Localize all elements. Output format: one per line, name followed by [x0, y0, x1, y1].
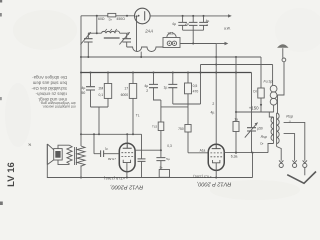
wire bottom rail: [47, 165, 252, 178]
svg-text:Schaltbild des Ge-: Schaltbild des Ge-: [31, 86, 67, 91]
capacitor C4 4µ50: [86, 71, 95, 107]
resistor R8: [258, 88, 264, 98]
node lamp left: [136, 15, 138, 17]
wire drop cap bus to heater exit: [192, 30, 194, 43]
capacitor C1c: [199, 16, 208, 30]
svg-text:+150: +150: [249, 105, 259, 110]
wire column link: [161, 106, 188, 108]
node y112: [235, 111, 237, 113]
capacitor C1a: [178, 16, 187, 30]
transformer T2 secondary spine: [276, 113, 278, 147]
lamp contact dot: [138, 15, 140, 17]
svg-text:+TL5 (1361): +TL5 (1361): [193, 174, 212, 178]
wire R7 bottom: [235, 132, 237, 153]
svg-text:TL5: TL5: [152, 125, 158, 129]
svg-text:+TL56: +TL56: [107, 157, 116, 161]
antenna lead down: [278, 62, 285, 113]
jack terminal 1: [279, 160, 283, 167]
earth check symbol: [287, 172, 316, 184]
speck near speaker: [29, 144, 32, 146]
wire R8 bottom: [260, 98, 262, 112]
wire jack3 down: [304, 168, 306, 176]
wire dip to bus B1: [140, 52, 142, 57]
svg-text:(L: (L: [289, 120, 292, 124]
svg-text:13,1: 13,1: [167, 32, 174, 36]
tube U1 anode: [123, 143, 132, 148]
node on H2: [192, 15, 194, 17]
svg-text:0,1: 0,1: [98, 93, 103, 97]
antenna terminal: [282, 58, 286, 62]
wire L2 bottom: [273, 105, 275, 112]
svg-text:2: 2: [146, 89, 148, 93]
wire bus B3: [81, 72, 252, 74]
wire lamp drop through dip: [136, 16, 138, 51]
svg-text:Dr: Dr: [109, 17, 112, 21]
node B1 x141: [140, 56, 142, 58]
svg-text:4µ: 4µ: [210, 111, 214, 115]
wire B1 corner down: [260, 57, 262, 88]
connector box: [163, 38, 180, 48]
lamp filament bar: [144, 11, 146, 20]
node on oscillator line: [96, 32, 98, 34]
node rail tube1: [126, 177, 128, 179]
speaker cone: [47, 144, 53, 165]
wire tube1 plate out: [135, 149, 161, 151]
svg-text:Dr: Dr: [160, 166, 163, 170]
speaker coil zigzag: [67, 145, 72, 164]
node B1 x88: [87, 56, 89, 58]
node on H2: [202, 15, 204, 17]
svg-text:450Ω: 450Ω: [116, 17, 125, 21]
variable capacitor C3: [119, 32, 131, 47]
scan mottling: [13, 10, 77, 50]
svg-text:60Ω: 60Ω: [98, 17, 105, 21]
svg-text:a.W.: a.W.: [224, 26, 231, 30]
svg-text:A1a: A1a: [200, 148, 206, 152]
capacitor C10: [138, 159, 146, 162]
svg-text:RV12 P 2000,: RV12 P 2000,: [197, 181, 232, 187]
node x99: [98, 133, 100, 135]
tube U2 cathode: [213, 160, 220, 163]
svg-text:LV 16: LV 16: [6, 162, 17, 187]
resistor R9 750: [185, 125, 191, 133]
svg-text:6000: 6000: [121, 93, 129, 97]
edge speck left mid: [0, 13, 2, 17]
arrow terminal right: [228, 14, 232, 17]
lamp V1: [135, 8, 151, 24]
node rail grid bus: [80, 133, 82, 135]
node rail transformer: [80, 177, 82, 179]
wire grid bus y134: [81, 133, 142, 135]
inductor L1: [102, 31, 120, 33]
wire bus B2: [201, 64, 273, 66]
node screen B3: [235, 71, 237, 73]
node x252: [252, 152, 254, 154]
node rail B1: [80, 56, 82, 58]
node B3 x200: [199, 71, 201, 73]
resistor R4: [185, 71, 192, 124]
tube U1 grid: [121, 153, 133, 157]
wire screen chain: [235, 57, 237, 122]
antenna stem: [282, 48, 284, 58]
svg-text:1a: 1a: [234, 117, 238, 121]
wire T2 primary bottom lead: [273, 141, 275, 144]
wire cap bottom bus: [183, 29, 204, 31]
svg-text:µ50: µ50: [257, 127, 263, 131]
node B3 x216: [215, 71, 217, 73]
wire T2 secondary bottom: [277, 147, 282, 161]
resistor R2: [104, 71, 111, 107]
svg-text:+TL5 (1361): +TL5 (1361): [103, 176, 125, 181]
resistor R7: [233, 122, 239, 132]
svg-text:470: 470: [193, 90, 199, 94]
speaker body: [54, 149, 63, 160]
speaker LS cone bar: [46, 144, 48, 165]
wire heater line with loop dips: [127, 47, 163, 52]
svg-text:17: 17: [124, 87, 128, 91]
wire R9 to tube2 grid: [187, 132, 189, 153]
edge speck left center: [0, 97, 2, 100]
resistor R1: [108, 13, 116, 17]
connector pin 2: [172, 41, 176, 45]
node B1 x236: [235, 56, 237, 58]
node x133: [132, 133, 134, 135]
wire C6 bottom to B2 feed: [173, 103, 201, 105]
svg-text:mit aufgeführt werden.: mit aufgeführt werden.: [42, 105, 76, 109]
svg-text:0,3: 0,3: [167, 144, 172, 148]
wire C8 to rail box: [160, 161, 162, 170]
tube U1 envelope: [119, 143, 135, 172]
edge speck top left: [0, 0, 2, 3]
svg-text:der Vergleichstype geg.: der Vergleichstype geg.: [40, 101, 75, 105]
wire H2 lamp to arrow: [150, 15, 228, 17]
svg-text:RV12 P2000,: RV12 P2000,: [110, 183, 143, 189]
resistor R3: [129, 71, 136, 134]
note text block rotated: [31, 75, 76, 109]
wire bias drop with capacitor: [141, 134, 143, 158]
svg-text:Die übrigen Anga-: Die übrigen Anga-: [32, 75, 67, 80]
wire left rail: [80, 16, 82, 146]
svg-text:Fu.Sp: Fu.Sp: [264, 79, 273, 83]
svg-text:4µ: 4µ: [81, 86, 85, 90]
wire drop H1 to tuner line: [96, 16, 98, 33]
svg-text:Dr: Dr: [260, 141, 263, 145]
inductor L1 adjust ticks: [105, 29, 117, 31]
transformer T2 primary spine: [273, 117, 275, 141]
node junction on H1 right: [126, 15, 128, 17]
edge speck bottom left: [0, 202, 3, 206]
svg-text:50: 50: [82, 91, 86, 95]
wire screen bus y112: [236, 111, 274, 113]
svg-text:5µ: 5µ: [166, 157, 170, 161]
variable capacitor C2: [81, 32, 93, 57]
wire joining C4 R2 bottoms: [91, 106, 109, 108]
wire transformer grid branch: [93, 134, 95, 153]
jack terminal 3: [303, 160, 307, 167]
wire tube2 grid: [188, 152, 208, 154]
inductor L1 core bar: [104, 37, 120, 39]
svg-text:ben sind aus dem: ben sind aus dem: [32, 81, 67, 86]
node on H2: [182, 15, 184, 17]
node x94: [93, 133, 95, 135]
tube U2 envelope: [208, 144, 224, 170]
capacitor C1b: [189, 16, 198, 30]
svg-text:2µ: 2µ: [185, 22, 189, 26]
resistor R5: [158, 122, 164, 131]
wire tube2 anode drop: [215, 44, 217, 145]
tube U1 cathode: [123, 160, 130, 163]
transformer T2 secondary loops: [277, 113, 280, 144]
wire tube1 top lead: [126, 134, 128, 143]
speaker magnet: [55, 151, 60, 158]
svg-text:750: 750: [178, 127, 184, 131]
capacitor C5: [149, 71, 161, 100]
wire T2 primary top lead: [269, 112, 273, 117]
capacitor C7 grid: [101, 150, 104, 157]
svg-text:2: 2: [212, 102, 214, 106]
wire T2 tap upper: [284, 122, 305, 160]
node x127: [126, 133, 128, 135]
wire heater exit: [180, 43, 216, 45]
wire tube2 plate right: [224, 144, 273, 153]
node B2 x216: [215, 64, 217, 66]
variable capacitor C9: [245, 73, 258, 153]
svg-text:2M: 2M: [98, 87, 103, 91]
wire rail right riser: [252, 153, 254, 178]
node B1 x216: [215, 56, 217, 58]
node plate junction: [160, 149, 162, 151]
wire T2 tap lower: [284, 134, 295, 161]
node junction on H1 left: [96, 15, 98, 17]
transformer T2 primary loops: [271, 117, 273, 141]
wire column x161: [160, 100, 162, 157]
svg-text:2: 2: [206, 23, 208, 27]
wire grid line left: [94, 153, 119, 155]
node +150: [260, 104, 262, 106]
tube U1 cathode lead: [126, 163, 128, 178]
svg-text:0,5: 0,5: [193, 84, 198, 88]
wire B2 feed vertical: [200, 65, 202, 105]
resistor R6 on rail: [159, 170, 169, 178]
svg-text:1µ: 1µ: [164, 86, 168, 90]
wire secondary bottom to rail: [80, 165, 82, 177]
tube U2 anode: [212, 144, 221, 148]
svg-text:TL: TL: [136, 114, 140, 118]
svg-text:4µ: 4µ: [144, 84, 148, 88]
wire bus B1: [81, 56, 261, 58]
connector pin 1: [167, 41, 171, 45]
node heater exit: [192, 43, 194, 45]
svg-text:1µ: 1µ: [105, 146, 109, 150]
wire oscillator line: [88, 32, 126, 34]
svg-text:Rsp: Rsp: [286, 114, 293, 118]
capacitor C6: [168, 71, 177, 104]
svg-text:6,3a: 6,3a: [231, 155, 238, 159]
wire drop to grid bus: [98, 107, 100, 134]
wire top rail H1: [81, 15, 135, 17]
connector hop arc: [167, 33, 176, 38]
arrow heater stub: [216, 43, 224, 45]
svg-text:Rsp: Rsp: [261, 135, 267, 139]
node x236: [235, 152, 237, 154]
svg-text:4µ: 4µ: [172, 22, 176, 26]
transformer T1 secondary zigzag: [77, 146, 85, 166]
capacitor C8: [156, 158, 165, 161]
tube U2 cathode lead: [215, 163, 217, 178]
inductor L2 loops: [270, 85, 277, 92]
node rail tube2: [215, 177, 217, 179]
wire B2 corner to coil: [272, 65, 274, 86]
node rail B3: [80, 72, 82, 74]
antenna symbol: [277, 44, 288, 48]
tube U2 grid: [210, 153, 222, 157]
jack terminal 2: [292, 160, 296, 167]
svg-text:rätes zu entneh-: rätes zu entneh-: [35, 92, 67, 97]
svg-text:2AA: 2AA: [144, 28, 153, 33]
speaker leads frame: [58, 145, 70, 164]
transformer T1 core: [75, 147, 77, 165]
